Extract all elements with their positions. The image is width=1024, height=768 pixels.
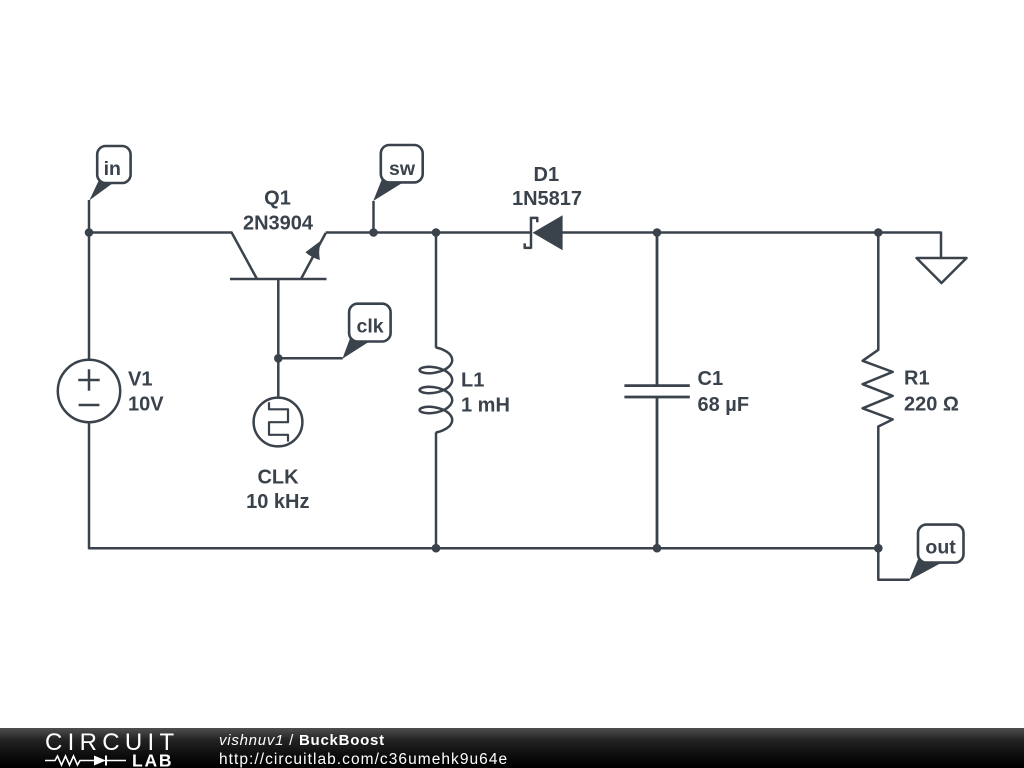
svg-text:1N5817: 1N5817 <box>512 188 582 210</box>
svg-text:in: in <box>104 158 121 180</box>
svg-text:10V: 10V <box>128 393 164 415</box>
svg-text:Q1: Q1 <box>264 188 291 210</box>
svg-text:sw: sw <box>389 158 416 180</box>
svg-text:10 kHz: 10 kHz <box>246 491 309 513</box>
svg-text:220 Ω: 220 Ω <box>904 393 959 415</box>
svg-text:D1: D1 <box>534 164 560 186</box>
svg-text:C1: C1 <box>698 368 724 390</box>
svg-text:clk: clk <box>357 315 384 337</box>
svg-text:68 µF: 68 µF <box>698 394 750 416</box>
svg-text:CLK: CLK <box>257 466 299 488</box>
svg-text:R1: R1 <box>904 368 930 390</box>
svg-text:2N3904: 2N3904 <box>243 212 314 234</box>
svg-text:L1: L1 <box>461 370 484 392</box>
svg-text:1 mH: 1 mH <box>461 394 510 416</box>
svg-text:out: out <box>925 537 956 559</box>
svg-text:LAB: LAB <box>132 751 173 768</box>
svg-text:V1: V1 <box>128 369 152 391</box>
